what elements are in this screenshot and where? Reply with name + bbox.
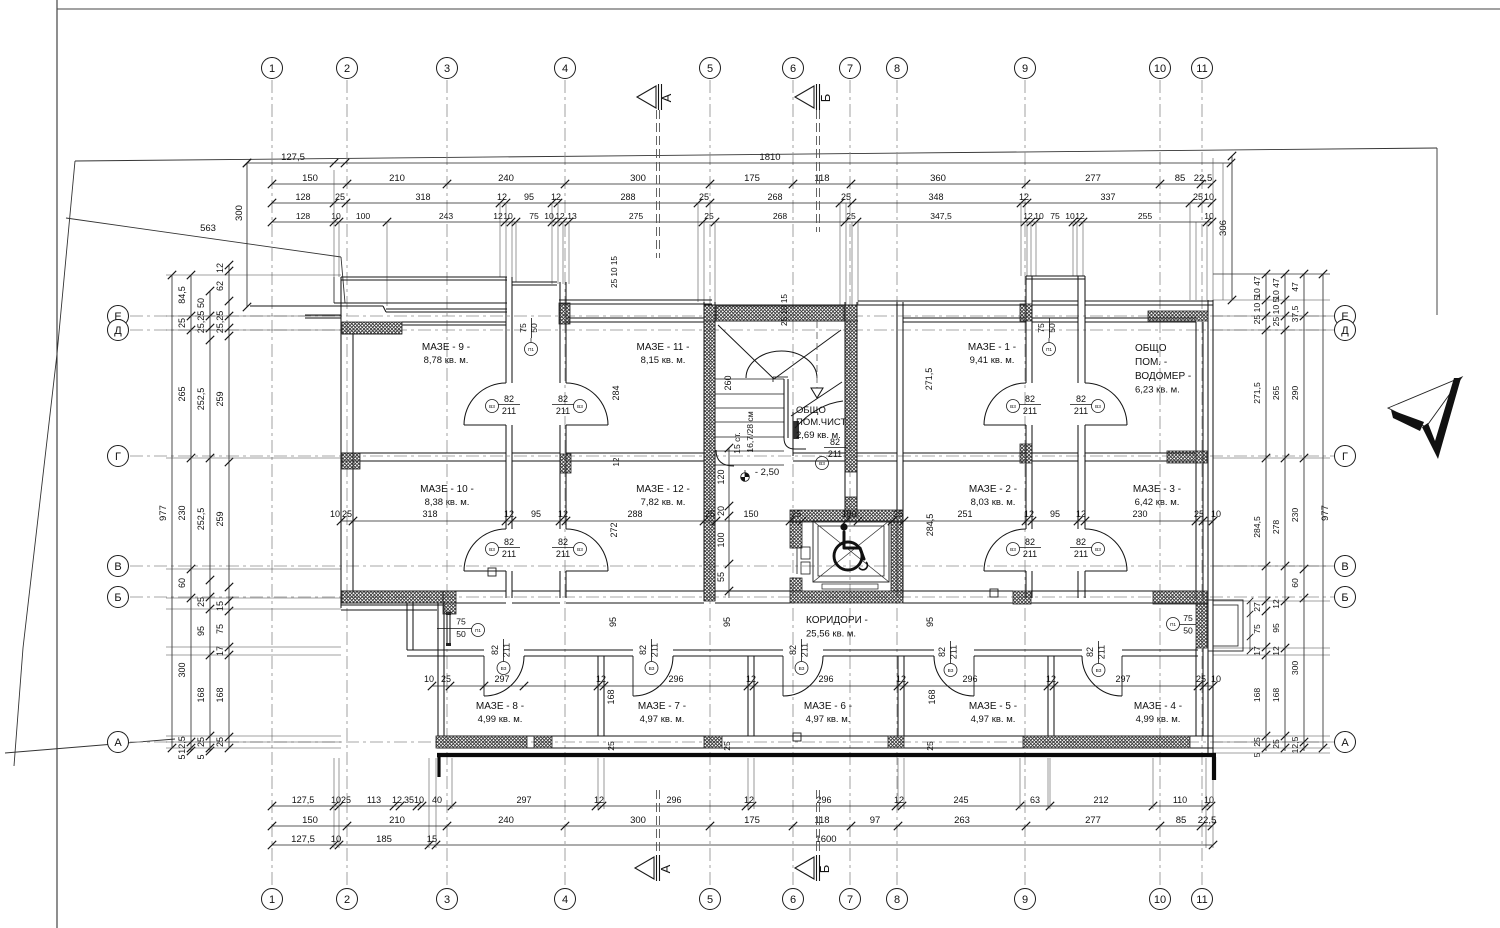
svg-text:5: 5 [196, 754, 206, 759]
elevator shaft left wall upper [790, 522, 802, 548]
svg-text:284,5: 284,5 [925, 514, 935, 537]
svg-text:211: 211 [1074, 549, 1088, 559]
svg-text:1: 1 [269, 63, 275, 75]
svg-text:168: 168 [215, 687, 225, 702]
svg-text:10: 10 [331, 795, 341, 805]
axis circle 6 bottom [783, 889, 804, 910]
svg-text:268: 268 [773, 211, 788, 221]
axis circle 3 top [437, 58, 458, 79]
svg-text:211: 211 [1023, 406, 1037, 416]
pier Б axis П1 bottom-left [443, 591, 456, 614]
wall МАЗЕ-1/2 east [1025, 276, 1027, 383]
top dimension 300 vertical [246, 163, 248, 307]
svg-text:В3: В3 [819, 461, 825, 467]
top dimension row 1810/127,5 [247, 162, 1231, 164]
svg-text:300: 300 [1290, 661, 1300, 676]
svg-text:17: 17 [1252, 646, 1262, 656]
svg-text:12: 12 [744, 795, 754, 805]
pier stair west wall [704, 305, 715, 601]
svg-text:297: 297 [516, 795, 531, 805]
svg-text:10: 10 [1211, 674, 1221, 684]
svg-text:75: 75 [215, 624, 225, 634]
section mark А top [637, 86, 656, 108]
svg-text:12: 12 [558, 509, 568, 519]
svg-text:12: 12 [493, 211, 503, 221]
axis circle Д right [1335, 320, 1356, 341]
svg-text:50: 50 [1183, 626, 1193, 636]
svg-text:5: 5 [177, 754, 187, 759]
wall corridor south [407, 649, 484, 651]
svg-text:240: 240 [498, 815, 514, 826]
axis circle А right [1335, 732, 1356, 753]
svg-text:211: 211 [828, 449, 842, 459]
top dimension row 2 [272, 202, 1212, 204]
axis circle Д left [108, 320, 129, 341]
axis circle 9 top [1015, 58, 1036, 79]
svg-text:272: 272 [609, 522, 619, 537]
svg-text:211: 211 [949, 645, 959, 659]
svg-text:10: 10 [414, 795, 424, 805]
svg-text:25: 25 [606, 741, 616, 751]
wall top bay floor [1032, 300, 1078, 302]
closet door leaf [793, 421, 799, 439]
pier Д axis right [1148, 311, 1208, 321]
svg-text:10 47: 10 47 [1271, 278, 1281, 300]
wall axis Г [341, 452, 506, 454]
svg-text:150: 150 [302, 815, 318, 826]
wall axis Б [341, 590, 506, 592]
svg-text:50: 50 [196, 298, 206, 308]
svg-text:МАЗЕ - 2 -: МАЗЕ - 2 - [969, 484, 1017, 495]
svg-text:5: 5 [707, 894, 713, 906]
svg-text:75: 75 [1183, 613, 1193, 623]
svg-text:175: 175 [744, 173, 760, 184]
svg-text:211: 211 [556, 406, 570, 416]
svg-text:12: 12 [497, 192, 507, 202]
svg-text:263: 263 [954, 815, 970, 826]
svg-text:12: 12 [1023, 211, 1033, 221]
top dimension row axis spans [272, 183, 1212, 185]
svg-text:211: 211 [1097, 645, 1107, 659]
wall top-left inner pair [386, 308, 507, 310]
svg-text:9: 9 [1022, 894, 1028, 906]
svg-text:2: 2 [344, 63, 350, 75]
pier Б axis left band [342, 591, 443, 603]
right dimension connectors [1213, 299, 1330, 301]
svg-text:ПОМ. -: ПОМ. - [1135, 357, 1167, 368]
svg-text:МАЗЕ - 4 -: МАЗЕ - 4 - [1134, 701, 1182, 712]
door МАЗЕ-8 [484, 656, 524, 696]
svg-text:П1: П1 [528, 347, 534, 353]
axis 11 dashed line [1201, 80, 1203, 888]
svg-text:9: 9 [1022, 63, 1028, 75]
light shaft box right of corridor [1208, 600, 1243, 651]
svg-text:211: 211 [800, 643, 810, 657]
small box on Б wall near axis 6 [488, 568, 496, 576]
svg-text:12: 12 [612, 457, 621, 466]
bottom dimension row A [272, 805, 1211, 807]
svg-text:12: 12 [596, 674, 606, 684]
axis circle 4 bottom [555, 889, 576, 910]
svg-text:10: 10 [1154, 63, 1166, 75]
svg-text:12: 12 [555, 211, 565, 221]
svg-text:284,5: 284,5 [1252, 516, 1262, 538]
svg-text:211: 211 [650, 643, 660, 657]
svg-text:10: 10 [1204, 192, 1214, 202]
svg-text:25: 25 [1193, 192, 1203, 202]
svg-text:95: 95 [524, 192, 534, 202]
svg-text:255: 255 [1138, 211, 1153, 221]
svg-text:25 10 15: 25 10 15 [780, 294, 789, 326]
bottom dimension row axis spans [272, 825, 1212, 827]
svg-text:127,5: 127,5 [291, 834, 315, 845]
svg-text:230: 230 [1290, 508, 1300, 523]
wall inner face right rooms [903, 317, 1026, 319]
svg-text:15: 15 [427, 834, 438, 845]
pier stair top wall [716, 306, 844, 321]
svg-text:82: 82 [788, 645, 798, 655]
svg-text:3: 3 [444, 63, 450, 75]
stair bottom rail corner [716, 450, 734, 466]
svg-text:В3: В3 [948, 668, 954, 674]
svg-text:185: 185 [376, 834, 392, 845]
svg-text:Б: Б [817, 865, 832, 874]
svg-text:12: 12 [1076, 509, 1086, 519]
svg-text:А: А [114, 737, 122, 749]
page frame top line [57, 8, 1500, 10]
svg-text:В3: В3 [577, 547, 583, 553]
svg-text:100: 100 [356, 211, 371, 221]
pier Б axis right [1153, 591, 1207, 604]
svg-text:128: 128 [296, 211, 311, 221]
svg-text:265: 265 [177, 386, 187, 401]
svg-text:252,5: 252,5 [196, 508, 206, 531]
pier shaft М9/М11 top [559, 303, 570, 324]
svg-text:12: 12 [746, 674, 756, 684]
svg-text:25,56 кв. м.: 25,56 кв. м. [806, 629, 856, 640]
svg-text:12,5: 12,5 [1290, 736, 1300, 753]
svg-text:10: 10 [1204, 795, 1214, 805]
svg-text:277: 277 [1085, 173, 1101, 184]
svg-text:360: 360 [930, 173, 946, 184]
svg-text:12: 12 [504, 509, 514, 519]
svg-text:82: 82 [1025, 394, 1035, 404]
svg-text:63: 63 [1030, 795, 1040, 805]
axis circle Е right [1335, 306, 1356, 327]
svg-text:35: 35 [404, 795, 414, 805]
svg-text:- 2,50: - 2,50 [755, 467, 779, 478]
svg-text:ВОДОМЕР -: ВОДОМЕР - [1135, 371, 1191, 382]
П1 niche top [341, 602, 443, 604]
svg-text:4,97 кв. м.: 4,97 кв. м. [806, 714, 851, 725]
svg-text:В3: В3 [489, 547, 495, 553]
svg-text:В3: В3 [649, 666, 655, 672]
svg-text:В: В [1341, 561, 1348, 573]
svg-text:25: 25 [341, 795, 351, 805]
П1 niche duct [446, 612, 448, 646]
svg-text:12: 12 [1024, 509, 1034, 519]
pier А axis band 1 [436, 736, 527, 748]
wall right exterior inner [1195, 322, 1197, 601]
svg-text:22,5: 22,5 [1198, 815, 1217, 826]
svg-text:Д: Д [114, 325, 122, 337]
pier А axis band 1b [534, 736, 552, 748]
svg-text:ОБЩО: ОБЩО [1135, 343, 1167, 354]
svg-text:259: 259 [215, 511, 225, 526]
svg-text:268: 268 [767, 192, 782, 202]
svg-text:4,99 кв. м.: 4,99 кв. м. [1136, 714, 1181, 725]
svg-text:Б: Б [1341, 592, 1348, 604]
svg-text:8,38 кв. м.: 8,38 кв. м. [425, 497, 470, 508]
svg-text:МАЗЕ - 9 -: МАЗЕ - 9 - [422, 342, 470, 353]
svg-text:82: 82 [558, 394, 568, 404]
interior dimension row Г-Б [341, 520, 1213, 522]
small box on Б wall near МАЗЕ-6 [990, 589, 998, 597]
axis Е dashed line [130, 315, 1335, 317]
svg-text:П1: П1 [1046, 347, 1052, 353]
svg-text:82: 82 [504, 394, 514, 404]
elevator cab [813, 521, 889, 582]
svg-text:В3: В3 [1010, 547, 1016, 553]
elevator shaft top wall [790, 510, 903, 522]
svg-text:296: 296 [962, 674, 977, 684]
svg-text:300: 300 [630, 815, 646, 826]
site boundary left polyline [14, 161, 75, 766]
svg-text:9,41 кв. м.: 9,41 кв. м. [970, 355, 1015, 366]
svg-text:МАЗЕ - 12 -: МАЗЕ - 12 - [636, 484, 690, 495]
axis circle 8 top [887, 58, 908, 79]
svg-text:25: 25 [335, 192, 345, 202]
svg-text:168: 168 [1252, 688, 1262, 703]
svg-text:2: 2 [344, 894, 350, 906]
axis circle В right [1335, 556, 1356, 577]
stair direction line and triangle [816, 321, 818, 388]
svg-text:МАЗЕ - 5 -: МАЗЕ - 5 - [969, 701, 1017, 712]
axis circle 2 bottom [337, 889, 358, 910]
axis А dashed line [130, 741, 1335, 743]
svg-text:25: 25 [342, 509, 352, 519]
svg-text:211: 211 [502, 643, 512, 657]
stair break diagonal right [774, 330, 841, 379]
svg-text:127,5: 127,5 [281, 152, 305, 163]
stair break diagonal closet [791, 382, 842, 416]
axis 9 dashed line [1024, 80, 1026, 888]
right dimension column 3 [1303, 274, 1305, 751]
axis circle 1 top [262, 58, 283, 79]
svg-text:82: 82 [638, 645, 648, 655]
pier Г axis right [1167, 451, 1207, 463]
svg-text:245: 245 [953, 795, 968, 805]
wall top segment axis9-11 [1085, 300, 1213, 302]
right dimension column 2 [1284, 274, 1286, 751]
svg-text:МАЗЕ - 1 -: МАЗЕ - 1 - [968, 342, 1016, 353]
svg-text:85: 85 [1176, 815, 1187, 826]
axis 3 dashed line [446, 80, 448, 888]
svg-text:296: 296 [668, 674, 683, 684]
svg-text:П1: П1 [1170, 622, 1176, 628]
axis circle 1 bottom [262, 889, 283, 910]
axis circle Е left [108, 306, 129, 327]
svg-text:40: 40 [432, 795, 442, 805]
svg-text:300: 300 [630, 173, 646, 184]
svg-text:211: 211 [1074, 406, 1088, 416]
svg-text:15: 15 [215, 601, 225, 611]
interior dimension row bottom rooms [432, 685, 1213, 687]
svg-text:230: 230 [177, 505, 187, 520]
door МАЗЕ-9 [464, 383, 506, 425]
svg-text:В: В [114, 561, 121, 573]
svg-text:4,97 кв. м.: 4,97 кв. м. [640, 714, 685, 725]
left dimension column 2 [190, 275, 192, 751]
svg-text:17: 17 [215, 646, 225, 656]
svg-text:82: 82 [1025, 537, 1035, 547]
wall ОБЩО/МАЗЕ-3 west [1077, 276, 1079, 383]
svg-text:Г: Г [1342, 451, 1348, 463]
closet door arc [795, 401, 843, 428]
stair landing dimension column [728, 448, 730, 598]
svg-text:25: 25 [699, 192, 709, 202]
svg-text:60: 60 [1290, 578, 1300, 588]
svg-text:МАЗЕ - 3 -: МАЗЕ - 3 - [1133, 484, 1181, 495]
svg-text:ОБЩО: ОБЩО [796, 405, 826, 416]
svg-text:95: 95 [196, 626, 206, 636]
wall stair east [844, 302, 846, 517]
svg-text:25: 25 [893, 509, 903, 519]
wall right exterior outer [1207, 300, 1209, 753]
svg-text:275: 275 [629, 211, 644, 221]
door МАЗЕ-3 [1085, 529, 1127, 571]
svg-text:300: 300 [177, 662, 187, 677]
wall top notch segment [512, 281, 557, 283]
wall МАЗЕ-1/2 west [896, 302, 898, 598]
svg-text:127,5: 127,5 [292, 795, 315, 805]
svg-text:25: 25 [177, 318, 187, 328]
pier Д axis М1 west [1020, 304, 1032, 321]
svg-text:10: 10 [1204, 211, 1214, 221]
svg-text:113: 113 [367, 795, 381, 805]
svg-text:В3: В3 [489, 404, 495, 410]
svg-text:75: 75 [1050, 211, 1060, 221]
wall inner face МАЗЕ-9 [402, 321, 506, 323]
extension lines to bottom dimensions [333, 758, 335, 848]
svg-text:25 10 15: 25 10 15 [610, 256, 619, 288]
svg-text:110: 110 [1173, 795, 1187, 805]
svg-text:82: 82 [504, 537, 514, 547]
svg-text:20: 20 [716, 506, 726, 516]
svg-text:210: 210 [389, 815, 405, 826]
svg-text:284: 284 [611, 385, 621, 400]
svg-text:95: 95 [531, 509, 541, 519]
svg-text:259: 259 [215, 391, 225, 406]
svg-text:12: 12 [1075, 211, 1085, 221]
svg-text:МАЗЕ - 10 -: МАЗЕ - 10 - [420, 484, 474, 495]
svg-text:318: 318 [422, 509, 437, 519]
site boundary top line [75, 148, 1437, 161]
svg-text:13: 13 [567, 211, 577, 221]
svg-text:97: 97 [870, 815, 881, 826]
svg-text:25: 25 [704, 211, 714, 221]
svg-text:977: 977 [158, 505, 169, 521]
svg-text:МАЗЕ - 7 -: МАЗЕ - 7 - [638, 701, 686, 712]
svg-text:95: 95 [925, 617, 935, 627]
svg-text:84,5: 84,5 [177, 286, 187, 304]
svg-text:25 10 5: 25 10 5 [1271, 297, 1281, 326]
svg-text:8,03 кв. м.: 8,03 кв. м. [971, 497, 1016, 508]
pier stair east wall upper [845, 305, 857, 472]
svg-text:168: 168 [606, 689, 616, 704]
svg-text:25: 25 [722, 741, 732, 751]
svg-text:82: 82 [1085, 647, 1095, 657]
door МАЗЕ-4 [1082, 656, 1122, 696]
svg-text:95: 95 [608, 617, 618, 627]
axis circle Б right [1335, 587, 1356, 608]
axis 10 dashed line [1159, 80, 1161, 888]
svg-text:210: 210 [389, 173, 405, 184]
svg-text:306: 306 [1218, 220, 1229, 236]
svg-text:Б: Б [114, 592, 121, 604]
svg-text:50: 50 [529, 323, 539, 333]
wall stair west [703, 302, 705, 601]
axis 5 dashed line [709, 80, 711, 888]
svg-text:10: 10 [424, 674, 434, 684]
svg-text:10: 10 [544, 211, 554, 221]
site boundary diagonal 563 [66, 218, 341, 257]
svg-text:100: 100 [716, 532, 726, 547]
svg-text:82: 82 [1076, 537, 1086, 547]
wall МАЗЕ-11/12 west [559, 282, 561, 383]
svg-text:347,5: 347,5 [930, 211, 952, 221]
svg-text:10: 10 [1065, 211, 1075, 221]
axis circle 7 top [840, 58, 861, 79]
svg-text:12: 12 [1019, 192, 1029, 202]
axis 1 dashed line [271, 80, 273, 888]
door МАЗЕ-12 [566, 529, 608, 571]
svg-text:290: 290 [1290, 386, 1300, 401]
wall top segment over stair [704, 304, 858, 306]
elevator cab diagonals [813, 521, 889, 582]
axis circle Г right [1335, 446, 1356, 467]
svg-text:82: 82 [1076, 394, 1086, 404]
axis circle 10 bottom [1150, 889, 1171, 910]
svg-text:25: 25 [1196, 674, 1206, 684]
svg-text:120: 120 [716, 469, 726, 484]
svg-text:82: 82 [937, 647, 947, 657]
svg-text:297: 297 [494, 674, 509, 684]
wall МАЗЕ-8 west [437, 603, 439, 736]
door МАЗЕ-10 [464, 529, 506, 571]
door МАЗЕ-1 [984, 383, 1026, 425]
svg-text:В3: В3 [501, 666, 507, 672]
svg-text:55: 55 [716, 572, 726, 582]
axis 7 dashed line [849, 80, 851, 888]
svg-text:15 ст.: 15 ст. [732, 432, 742, 454]
П1 niche west wall [406, 603, 408, 650]
axis circle 7 bottom [840, 889, 861, 910]
svg-text:150: 150 [743, 509, 758, 519]
axis circle 2 top [337, 58, 358, 79]
wall top bay box [1026, 275, 1085, 277]
svg-text:230: 230 [1132, 509, 1147, 519]
wall МАЗЕ-9/10 east [505, 277, 507, 383]
svg-text:В3: В3 [1095, 547, 1101, 553]
axis circle 11 bottom [1192, 889, 1213, 910]
elevator shaft left wall lower [790, 578, 802, 591]
svg-text:А: А [1341, 737, 1349, 749]
svg-text:95: 95 [722, 617, 732, 627]
left dimension column 4 [228, 265, 230, 748]
svg-text:8,78 кв. м.: 8,78 кв. м. [424, 355, 469, 366]
svg-text:12: 12 [215, 263, 225, 273]
